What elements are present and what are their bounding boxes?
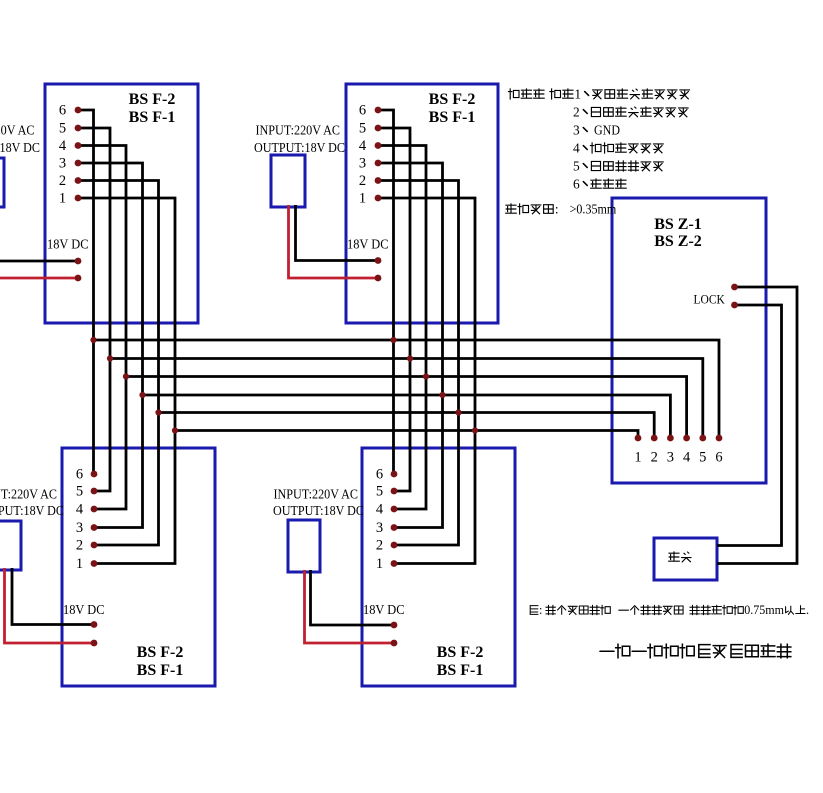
pin 2 dot top-middle box (375, 177, 382, 184)
junction signal 4 left column (123, 373, 129, 379)
lock box (suo tou) (654, 538, 717, 580)
svg-text:OUTPUT:18V DC: OUTPUT:18V DC (254, 141, 345, 156)
svg-text:OUTPUT:18V DC: OUTPUT:18V DC (0, 141, 40, 156)
svg-text::: : (539, 603, 542, 617)
pin 5 dot bottom-middle box (391, 488, 398, 495)
power supply U3 bottom-left (clipped at edge) (0, 521, 21, 570)
bus wire signal 2 to BS Z terminal 2 (159, 413, 655, 439)
wire signal 6: top-left box pin 6 down to bottom-left box pin 6 (78, 110, 95, 474)
terminal 6 dot BS Z box (716, 435, 723, 442)
18VDC terminal dots bottom-middle (391, 622, 398, 629)
svg-text:BS F-1: BS F-1 (437, 662, 484, 679)
wire signal 4: top-middle box pin 4 down to bottom-middle box pin 4 (378, 146, 426, 510)
wire signal 1: top-left box pin 1 down to bottom-left box pin 1 (78, 198, 175, 564)
svg-text:OUTPUT:18V DC: OUTPUT:18V DC (0, 504, 64, 519)
svg-text:2: 2 (76, 538, 83, 554)
svg-text:BS F-2: BS F-2 (437, 644, 484, 661)
wire LOCK upper terminal to lock box (outer) (717, 287, 797, 564)
pin 4 dot bottom-middle box (391, 506, 398, 513)
junction signal 4 middle column (423, 373, 429, 379)
wire signal 2: top-left box pin 2 down to bottom-left box pin 2 (78, 181, 159, 546)
svg-text:LOCK: LOCK (694, 293, 726, 307)
power supply U4 bottom-middle (288, 520, 320, 572)
wire LOCK lower terminal to lock box (inner) (717, 305, 782, 546)
svg-text:18V DC: 18V DC (363, 603, 405, 618)
wire signal 5: top-left box pin 5 down to bottom-left box pin 5 (78, 128, 110, 491)
bus wire signal 3 to BS Z terminal 3 (143, 395, 671, 438)
wire signal 3: top-left box pin 3 down to bottom-left box pin 3 (78, 163, 143, 528)
svg-text:INPUT:220V AC: INPUT:220V AC (256, 124, 341, 139)
pin 3 dot bottom-left box (91, 524, 98, 531)
pin 2 dot bottom-middle box (391, 542, 398, 549)
svg-text:4: 4 (359, 138, 367, 154)
terminal 5 dot BS Z box (699, 435, 706, 442)
svg-text:3: 3 (376, 520, 383, 536)
pin 3 dot top-left box (75, 160, 82, 167)
svg-text:BS F-2: BS F-2 (129, 91, 176, 108)
pin 6 dot bottom-middle box (391, 471, 398, 478)
label lock box (Chinese: suo tou) (669, 552, 691, 562)
junction signal 1 middle column (472, 427, 478, 433)
svg-text:5: 5 (376, 484, 383, 500)
pin 5 dot top-left box (75, 125, 82, 132)
label BS F-2 / BS F-1 top-left (129, 91, 176, 126)
wire 18VDC red psu4 to bottom-middle box (305, 570, 395, 643)
pin 5 dot top-middle box (375, 125, 382, 132)
18VDC terminal dots top-left (75, 258, 82, 265)
svg-text:BS F-1: BS F-1 (137, 662, 184, 679)
18VDC terminal dots top-middle (375, 257, 382, 264)
wire signal 2: top-middle box pin 2 down to bottom-middle box pin 2 (378, 181, 459, 546)
pin 1 dot top-middle box (375, 195, 382, 202)
svg-text:BS F-1: BS F-1 (129, 109, 176, 126)
pin 1 dot bottom-middle box (391, 560, 398, 567)
LOCK terminal dots (731, 284, 738, 291)
svg-text:2: 2 (573, 105, 580, 120)
wire 18VDC black psu4 to bottom-middle box (311, 570, 395, 625)
bottom note: four units share one psu (Chinese) (530, 603, 809, 617)
svg-text:3: 3 (76, 520, 83, 536)
svg-text:0.75mm: 0.75mm (744, 603, 784, 617)
pin 5 dot bottom-left box (91, 488, 98, 495)
svg-text:6: 6 (573, 177, 580, 192)
svg-text:1: 1 (359, 191, 366, 207)
label INPUT/OUTPUT top-left psu (0, 124, 40, 157)
pin numbers 6-1 top-middle box (359, 103, 367, 207)
junction signal 3 left column (139, 392, 145, 398)
title: one-to-one video intercom wiring diagram (Chinese) (600, 644, 791, 657)
svg-text:2: 2 (651, 450, 658, 466)
svg-text:1: 1 (376, 556, 383, 572)
svg-text::: : (555, 202, 559, 217)
svg-text:6: 6 (376, 467, 383, 483)
18VDC terminal dots bottom-left (91, 621, 98, 628)
junction signal 1 left column (172, 427, 178, 433)
svg-text:>0.35mm: >0.35mm (570, 202, 617, 217)
wire signal 6: top-middle box pin 6 down to bottom-middle box pin 6 (378, 110, 395, 474)
svg-text:6: 6 (359, 103, 366, 119)
door unit box BS Z-1/BS Z-2 right (612, 198, 766, 483)
wire 18VDC red psu2 to top-middle box (289, 205, 379, 278)
svg-text:18V DC: 18V DC (63, 603, 105, 618)
junction signal 5 left column (107, 355, 113, 361)
label BS Z-1 / BS Z-2 (654, 216, 702, 250)
label INPUT/OUTPUT bottom-left psu (0, 488, 64, 520)
svg-text:INPUT:220V AC: INPUT:220V AC (0, 488, 57, 503)
svg-text:6: 6 (715, 450, 722, 466)
bus wire signal 4 to BS Z terminal 4 (126, 377, 687, 439)
svg-text:4: 4 (76, 502, 84, 518)
indoor unit box BS F-2/BS F-1 bottom-middle (362, 448, 515, 686)
indoor unit box BS F-2/BS F-1 top-middle (346, 84, 498, 323)
svg-text:18V DC: 18V DC (347, 238, 389, 253)
svg-text:2: 2 (376, 538, 383, 554)
wire 18VDC red psu1 to top-left box (0, 277, 78, 280)
bus wire signal 1 to BS Z terminal 1 (175, 431, 638, 439)
svg-text:INPUT:220V AC: INPUT:220V AC (0, 124, 35, 139)
pin 4 dot top-middle box (375, 142, 382, 149)
svg-text:1: 1 (59, 191, 66, 207)
pin 6 dot bottom-left box (91, 471, 98, 478)
svg-text:6: 6 (76, 467, 83, 483)
svg-text:BS F-1: BS F-1 (429, 109, 476, 126)
svg-text:4: 4 (683, 450, 691, 466)
svg-text:1: 1 (574, 87, 581, 102)
junction signal 3 middle column (439, 392, 445, 398)
svg-text:5: 5 (59, 121, 66, 137)
pin 1 dot top-left box (75, 195, 82, 202)
svg-text:3: 3 (667, 450, 674, 466)
power supply U2 top-middle (271, 155, 305, 207)
svg-text:INPUT:220V AC: INPUT:220V AC (274, 488, 359, 503)
svg-text:OUTPUT:18V DC: OUTPUT:18V DC (273, 504, 364, 519)
svg-text:4: 4 (573, 141, 580, 156)
pin 6 dot top-middle box (375, 107, 382, 114)
wire 18VDC black psu3 to bottom-left box (12, 568, 94, 625)
svg-text:BS Z-1: BS Z-1 (654, 216, 702, 233)
svg-text:3: 3 (59, 156, 66, 172)
pin 2 dot top-left box (75, 177, 82, 184)
svg-text:5: 5 (76, 484, 83, 500)
bus wire signal 5 to BS Z terminal 5 (110, 359, 703, 439)
label INPUT/OUTPUT top-middle psu (254, 124, 345, 157)
svg-text:3: 3 (359, 156, 366, 172)
svg-text:BS F-2: BS F-2 (137, 644, 184, 661)
svg-text:18V DC: 18V DC (47, 238, 89, 253)
svg-text:4: 4 (376, 502, 384, 518)
junction signal 5 middle column (407, 355, 413, 361)
power supply U1 top-left (clipped at edge) (0, 158, 4, 207)
note: wire functions list (Chinese) (509, 87, 690, 192)
pin 3 dot bottom-middle box (391, 524, 398, 531)
svg-text:1: 1 (634, 450, 641, 466)
wire signal 5: top-middle box pin 5 down to bottom-middle box pin 5 (378, 128, 410, 491)
svg-text:5: 5 (359, 121, 366, 137)
wire 18VDC red psu3 to bottom-left box (5, 568, 95, 643)
pin 6 dot top-left box (75, 107, 82, 114)
note: wire gauge requirement (Chinese) (506, 202, 617, 217)
bus wire signal 6 to BS Z terminal 6 (94, 340, 720, 438)
wire 18VDC black psu1 to top-left box (0, 260, 78, 263)
junction signal 6 left column (90, 337, 96, 343)
label BS F-2 / BS F-1 bottom-middle (437, 644, 484, 679)
terminal 3 dot BS Z box (667, 435, 674, 442)
pin 4 dot bottom-left box (91, 506, 98, 513)
label INPUT/OUTPUT bottom-middle psu (273, 488, 364, 520)
junction signal 6 middle column (390, 337, 396, 343)
pin 4 dot top-left box (75, 142, 82, 149)
junction signal 2 left column (155, 409, 161, 415)
svg-text:4: 4 (59, 138, 67, 154)
svg-text:6: 6 (59, 103, 66, 119)
svg-text:2: 2 (359, 173, 366, 189)
wire signal 4: top-left box pin 4 down to bottom-left box pin 4 (78, 146, 126, 510)
svg-text:.: . (806, 603, 809, 617)
terminal 1 dot BS Z box (635, 435, 642, 442)
pin numbers 6-1 bottom-middle box (376, 467, 384, 573)
pin numbers 6-1 top-left box (59, 103, 67, 207)
wire 18VDC black psu2 to top-middle box (296, 205, 379, 261)
wire signal 3: top-middle box pin 3 down to bottom-middle box pin 3 (378, 163, 443, 528)
junction signal 2 middle column (455, 409, 461, 415)
indoor unit box BS F-2/BS F-1 bottom-left (62, 448, 215, 686)
svg-text:2: 2 (59, 173, 66, 189)
label BS F-2 / BS F-1 bottom-left (137, 644, 184, 679)
svg-text:5: 5 (573, 159, 580, 174)
svg-text:1: 1 (76, 556, 83, 572)
terminal 2 dot BS Z box (651, 435, 658, 442)
svg-text:5: 5 (699, 450, 706, 466)
pin 1 dot bottom-left box (91, 560, 98, 567)
svg-text:GND: GND (594, 123, 620, 138)
pin 2 dot bottom-left box (91, 542, 98, 549)
terminal numbers 1-6 BS Z box (634, 450, 722, 466)
label BS F-2 / BS F-1 top-middle (429, 91, 476, 126)
svg-text:BS Z-2: BS Z-2 (654, 233, 702, 250)
pin 3 dot top-middle box (375, 160, 382, 167)
indoor unit box BS F-2/BS F-1 top-left (45, 84, 198, 323)
wire signal 1: top-middle box pin 1 down to bottom-middle box pin 1 (378, 198, 475, 564)
svg-text:3: 3 (573, 123, 580, 138)
pin numbers 6-1 bottom-left box (76, 467, 84, 573)
svg-text:BS F-2: BS F-2 (429, 91, 476, 108)
terminal 4 dot BS Z box (683, 435, 690, 442)
